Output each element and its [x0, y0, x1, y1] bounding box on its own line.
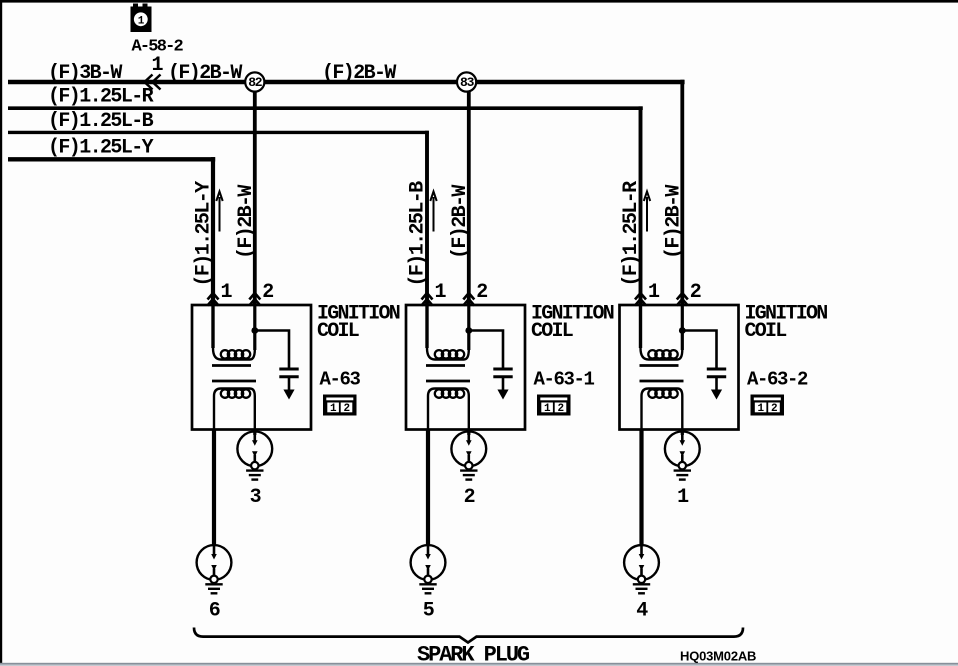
svg-text:A-63-1: A-63-1 [534, 369, 595, 391]
svg-text:5: 5 [423, 600, 434, 623]
wire (F)1.25L-R [8, 106, 643, 110]
spark plug 6 [197, 545, 232, 593]
primary winding of coil A-63-2 [641, 305, 683, 360]
secondary winding of coil A-63-1 [428, 389, 469, 430]
svg-text:2: 2 [557, 403, 563, 415]
pin 1 of ignition coil A-63 (entry chevrons + number) [208, 293, 219, 306]
svg-text:(F)1.25L-Y: (F)1.25L-Y [193, 181, 216, 287]
svg-text:4: 4 [636, 600, 648, 623]
svg-text:(F)3B-W: (F)3B-W [48, 62, 122, 85]
svg-text:2: 2 [690, 281, 701, 304]
wire 2B-W branch to coil A-63-1 pin 2 [467, 84, 471, 305]
wire coil A-63-1 to spark plug 5 [426, 429, 430, 546]
svg-text:(F)1.25L-Y: (F)1.25L-Y [48, 137, 154, 160]
coil A-63-1 pin 2 internal wire [467, 305, 470, 350]
secondary winding of coil A-63 [214, 389, 255, 430]
spark plug 5 [411, 545, 446, 593]
spark plug 1 [665, 431, 700, 479]
pin 1 of ignition coil A-63-2 (entry chevrons + number) [635, 293, 646, 306]
wire coil A-63 to spark plug 3 [253, 429, 256, 435]
wire (F)1.25L-B [8, 131, 429, 134]
connector pin icon of A-63-2 [751, 395, 785, 416]
pin 1 of ignition coil A-63-1 (entry chevrons + number) [422, 293, 433, 306]
svg-text:1: 1 [330, 403, 337, 415]
svg-text:(F)2B-W: (F)2B-W [663, 185, 686, 259]
capacitor in coil A-63-1 [469, 331, 513, 391]
spark plug 2 [451, 431, 486, 479]
svg-text:1: 1 [677, 486, 689, 509]
svg-text:(F)2B-W: (F)2B-W [322, 62, 396, 85]
svg-text:2: 2 [771, 403, 777, 415]
pin 2 of ignition coil A-63 (entry chevrons + number) [249, 293, 260, 306]
svg-text:2: 2 [262, 281, 273, 304]
junction dot in coil A-63-1 [465, 327, 472, 334]
junction dot in coil A-63 [251, 327, 258, 334]
wire (F)3B-W / (F)2B-W main feed [8, 80, 685, 85]
svg-text:(F)2B-W: (F)2B-W [168, 62, 242, 85]
svg-text:83: 83 [460, 75, 475, 90]
connector pin icon of A-63-1 [537, 395, 571, 416]
secondary winding of coil A-63-2 [642, 389, 683, 430]
svg-text:COIL: COIL [745, 320, 787, 343]
coil A-63 pin 2 internal wire [253, 305, 256, 350]
svg-text:(F)1.25L-R: (F)1.25L-R [620, 181, 643, 287]
pin 2 of ignition coil A-63-2 (entry chevrons + number) [677, 293, 688, 306]
pin 2 of ignition coil A-63-1 (entry chevrons + number) [463, 293, 474, 306]
connector pin icon of A-63 [323, 395, 357, 416]
spark plug 4 [624, 545, 659, 593]
ground arrow in coil A-63-2 [711, 390, 722, 400]
ignition coil A-63-2 box [620, 305, 739, 430]
wire (F)1.25L-Y [8, 157, 215, 161]
brace grouping spark plugs [194, 628, 743, 643]
capacitor in coil A-63-2 [682, 331, 726, 391]
direction arrow beside (F)1.25L-Y wire [216, 192, 222, 232]
svg-text:(F)2B-W: (F)2B-W [449, 185, 472, 259]
direction arrow beside (F)1.25L-B wire [430, 192, 436, 232]
svg-text:1: 1 [648, 281, 660, 304]
svg-text:1: 1 [758, 403, 765, 415]
junction dot in coil A-63-2 [679, 327, 686, 334]
ignition coil A-63-1 box [406, 305, 525, 430]
transformer core of coil A-63-2 [640, 366, 684, 382]
svg-text:1: 1 [221, 281, 233, 304]
connector A-58-2 marker on wire [145, 75, 161, 90]
wire coil A-63-1 to spark plug 2 [467, 429, 470, 435]
ground arrow in coil A-63 [283, 390, 294, 400]
spark plug 3 [237, 431, 272, 479]
svg-text:HQ03M02AB: HQ03M02AB [680, 649, 756, 664]
svg-text:1: 1 [435, 281, 447, 304]
primary winding of coil A-63 [213, 305, 255, 360]
svg-text:1: 1 [152, 54, 164, 77]
direction arrow beside (F)1.25L-R wire [644, 192, 650, 232]
svg-text:2: 2 [476, 281, 487, 304]
svg-text:A-63-2: A-63-2 [747, 369, 808, 391]
svg-text:(F)2B-W: (F)2B-W [235, 185, 258, 259]
coil A-63-2 pin 2 internal wire [681, 305, 684, 350]
svg-text:6: 6 [209, 600, 220, 623]
wire coil A-63-2 to spark plug 4 [639, 429, 643, 546]
wire 2B-W branch to coil A-63 pin 2 [253, 84, 257, 305]
svg-text:A-63: A-63 [320, 369, 361, 391]
primary winding of coil A-63-1 [427, 305, 469, 360]
svg-text:3: 3 [250, 486, 261, 509]
svg-text:2: 2 [343, 403, 349, 415]
ignition coil A-63 box [192, 305, 311, 430]
wire coil A-63-2 to spark plug 1 [681, 429, 684, 435]
svg-text:(F)1.25L-R: (F)1.25L-R [48, 86, 154, 109]
svg-text:(F)1.25L-B: (F)1.25L-B [407, 181, 430, 287]
transformer core of coil A-63-1 [426, 366, 470, 382]
connector A-58-2 icon [131, 4, 152, 33]
svg-text:1: 1 [138, 15, 145, 27]
svg-text:1: 1 [544, 403, 551, 415]
wire coil A-63 to spark plug 6 [212, 429, 216, 546]
capacitor in coil A-63 [255, 331, 299, 391]
svg-text:COIL: COIL [317, 320, 359, 343]
transformer core of coil A-63 [212, 366, 256, 382]
junction 83 [457, 72, 476, 91]
svg-text:82: 82 [248, 75, 263, 90]
ground arrow in coil A-63-1 [497, 390, 508, 400]
svg-text:2: 2 [464, 486, 475, 509]
junction 82 [245, 72, 264, 91]
svg-text:(F)1.25L-B: (F)1.25L-B [48, 110, 154, 133]
svg-text:SPARK PLUG: SPARK PLUG [417, 643, 530, 666]
svg-text:COIL: COIL [531, 320, 573, 343]
